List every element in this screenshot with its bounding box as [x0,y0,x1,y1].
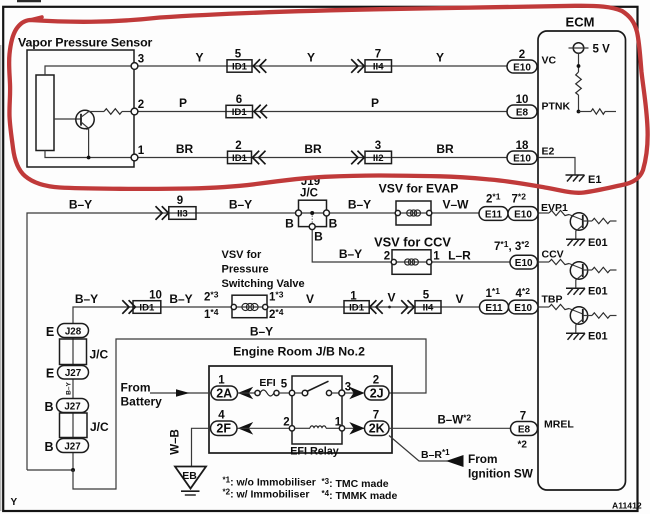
svg-text:Y: Y [307,51,315,65]
relay pin 5 circle [289,390,294,395]
resistor CCV base [549,259,569,264]
wire row 6 TBP feed [73,307,539,324]
junction block J/C upper [60,339,109,365]
svg-text:Vapor Pressure Sensor: Vapor Pressure Sensor [18,36,153,50]
svg-text:J28: J28 [65,326,82,337]
svg-text:Ignition SW: Ignition SW [468,467,534,481]
svg-text:II4: II4 [423,303,434,314]
wire 2K to MREL [389,427,511,429]
svg-text:*3: TMC made: *3: TMC made [322,477,389,490]
sensor pin 1 [131,154,138,161]
connector ID1 pin 1 [344,291,383,314]
wire sensor top to pin 3 [45,66,134,75]
connector E10 pin 4*2 [509,286,539,314]
solenoid VSV for pressure switching valve [231,295,268,318]
arrow connector 2K [349,422,364,435]
svg-text:EFI Relay: EFI Relay [290,446,339,458]
connector 2K pin 7 [365,410,390,436]
svg-text:E11: E11 [485,303,503,314]
junction block J19 J/C [296,176,330,230]
svg-text:E2: E2 [542,146,555,158]
connector E11 pin 2*1 [479,192,508,221]
svg-text:2*1: 2*1 [486,192,501,206]
arrow connector 2A [238,387,253,400]
svg-text:B–R*1: B–R*1 [421,448,450,461]
wire sensor bottom to row 3 [45,151,134,158]
wire bottom left link [27,469,73,471]
svg-text:Pressure: Pressure [222,263,269,275]
red marker start hook [30,17,42,20]
resistor ECM horizontal [591,109,605,114]
solenoid VSV for EVAP [395,201,432,225]
EFI relay box [292,376,342,444]
wire 2F to ground [192,428,211,466]
svg-text:1: 1 [218,375,225,387]
svg-text:J/C: J/C [90,420,109,434]
svg-text:V–W: V–W [442,198,469,212]
svg-text:7: 7 [520,411,526,423]
svg-text:B–Y: B–Y [339,247,362,261]
svg-text:A11412: A11412 [612,501,642,511]
sensor pin 2 [131,108,138,115]
wire to fuse [238,392,256,394]
resistor EVP1 collector [592,218,610,223]
resistor EVP1 base [549,210,569,215]
svg-text:2: 2 [384,251,390,263]
svg-text:TBP: TBP [542,294,563,306]
svg-text:E8: E8 [518,424,531,435]
svg-text:B–Y: B–Y [75,292,98,306]
svg-text:1: 1 [433,251,440,263]
svg-text:J/C: J/C [90,348,109,362]
svg-text:E11: E11 [485,209,503,220]
node junction dot [71,468,75,472]
svg-text:5: 5 [235,49,242,61]
svg-text:VC: VC [542,55,557,67]
svg-text:5 V: 5 V [593,44,611,56]
svg-text:B: B [314,230,323,244]
svg-text:EVP1: EVP1 [541,202,568,214]
connector II2 pin 3 [351,140,391,165]
ground EB triangle [175,467,206,496]
connector E10 pin 18 (E2) [507,140,537,165]
connector J28 (E) [46,324,89,340]
svg-text:VSV for CCV: VSV for CCV [374,235,451,250]
fuse EFI [255,377,279,396]
connector 2A pin 1 [211,375,238,401]
resistor TBP collector [592,313,610,318]
relay pin 2 circle [289,426,294,431]
svg-text:9: 9 [177,195,183,207]
Engine Room J/B box [209,366,392,453]
svg-text:E10: E10 [513,62,531,73]
svg-text:BR: BR [436,142,454,156]
CCV driver: wire pin to resistor [539,261,550,263]
svg-text:Y: Y [436,51,444,65]
connector II4 pin 5 [401,290,441,314]
connector ID1 pin 6 [226,94,267,118]
svg-text:E10: E10 [514,303,532,314]
svg-text:ID1: ID1 [349,303,365,314]
svg-text:B: B [44,400,53,414]
svg-text:From: From [121,381,151,395]
svg-text:1*3: 1*3 [269,290,284,304]
wire fuse to relay pin 5 [279,392,292,394]
svg-text:3: 3 [375,140,381,152]
connector 2J pin 2 [365,375,390,401]
arrow battery feed [176,389,190,397]
svg-text:B–Y: B–Y [169,292,192,306]
svg-text:BR: BR [176,142,194,156]
svg-text:1: 1 [138,145,145,157]
svg-text:From: From [468,452,498,466]
arrow from ignition [446,455,464,467]
svg-text:V: V [387,291,395,305]
ground E01 (TBP) [566,333,585,340]
svg-text:2J: 2J [370,386,384,400]
wire battery feed [150,392,211,394]
connector ID1 pin 5 [227,49,266,73]
connector J27 (B) [44,399,88,415]
transistor Q1 (sensor) [76,110,94,130]
svg-text:II3: II3 [177,209,188,220]
svg-text:5: 5 [281,379,288,391]
svg-text:E: E [46,325,54,339]
svg-text:PTNK: PTNK [542,101,571,113]
svg-text:W–B: W–B [170,429,182,455]
wire to relay pin 2 [238,427,293,429]
relay switch contacts [295,381,339,396]
red marker loop [9,6,648,193]
wire resistor to PTNK node [578,95,580,112]
connector ID1 pin 10 [122,290,162,314]
vapor pressure sensor box [27,50,134,167]
svg-text:B: B [329,217,338,231]
resistor CCV collector [592,267,610,272]
svg-text:J/C: J/C [300,188,318,200]
relay pin 1 circle [339,426,344,431]
svg-text:J27: J27 [64,441,81,452]
svg-text:E10: E10 [514,209,532,220]
svg-text:P: P [179,96,187,110]
node PTNK junction [577,110,581,114]
junction dot emitter [87,156,91,160]
transistor CCV [570,262,592,289]
sensor pin 3 [131,63,138,70]
svg-text:EB: EB [182,470,197,482]
svg-text:*4: TMMK made: *4: TMMK made [322,489,398,502]
svg-text:Battery: Battery [121,395,163,409]
svg-text:B–W*2: B–W*2 [438,413,472,427]
svg-text:V: V [306,292,314,306]
wire PTNK node to resistor [579,111,592,113]
svg-text:1: 1 [350,291,357,303]
svg-text:VSV for EVAP: VSV for EVAP [379,182,459,196]
svg-text:ID1: ID1 [232,62,248,73]
svg-text:4: 4 [218,410,225,422]
wire row 1 VC (Y) [135,65,539,67]
svg-text:18: 18 [516,140,529,152]
connector E8 pin 10 (PTNK) [507,94,537,118]
svg-text:B–Y: B–Y [69,198,92,212]
svg-text:B–Y: B–Y [348,198,371,212]
svg-text:*2: w/ Immobiliser: *2: w/ Immobiliser [223,488,310,501]
svg-text:5: 5 [423,290,430,302]
junction block J/C lower [60,413,110,438]
svg-text:7*1, 3*2: 7*1, 3*2 [494,239,530,253]
svg-text:MREL: MREL [544,419,574,431]
arrow connector 2F [238,422,253,435]
svg-text:E10: E10 [513,153,531,164]
svg-text:J27: J27 [65,368,82,379]
svg-text:1*4: 1*4 [204,307,219,321]
wire row 3 E2 (BR) [135,157,539,159]
wire row 2 PTNK (P) [135,111,539,113]
wire 5V to VC node [578,53,580,72]
svg-text:Y: Y [11,497,18,508]
svg-text:ID1: ID1 [139,303,155,314]
svg-text:E01: E01 [588,237,608,249]
wire row 4 EVP1 feed [27,213,539,470]
connector 2F pin 4 [211,410,238,436]
arrow connector 2J [349,387,364,400]
transistor TBP [570,307,592,334]
svg-text:E10: E10 [515,258,533,269]
svg-text:*2: *2 [518,440,528,451]
wire E2 to ground [539,158,576,176]
svg-text:4*2: 4*2 [516,286,531,300]
wire transistor base [54,118,81,120]
svg-text:7: 7 [373,410,379,422]
svg-text:B–Y: B–Y [229,198,252,212]
relay pin 3 circle [339,390,345,396]
node dot mid wire [388,306,391,309]
resistor TBP base [549,304,569,309]
svg-text:ID1: ID1 [232,153,248,164]
connector E11 pin 1*1 [480,286,509,314]
wire B-R branch [389,436,463,462]
TBP driver: wire pin to resistor [539,306,550,308]
svg-text:7: 7 [375,49,381,61]
svg-text:E01: E01 [588,286,608,298]
svg-text:B–Y: B–Y [250,325,273,339]
connector E10 pin 7*2 [508,192,538,221]
svg-text:2: 2 [373,375,379,387]
svg-text:BR: BR [304,142,322,156]
svg-text:1: 1 [335,417,342,429]
transistor EVP1 [570,213,592,240]
svg-text:3: 3 [138,54,144,66]
connector ID1 pin 2 [228,140,266,165]
svg-text:2A: 2A [216,386,232,400]
svg-text:6: 6 [236,94,242,106]
svg-text:V: V [455,292,463,306]
svg-text:2: 2 [235,140,241,152]
svg-text:VSV for: VSV for [222,249,262,261]
connector J27 (E) [46,366,89,381]
svg-text:2*3: 2*3 [204,290,219,304]
connector II4 pin 7 [351,49,391,73]
node VC junction [577,64,581,68]
svg-text:L–R: L–R [448,249,471,263]
svg-text:*1: w/o Immobiliser: *1: w/o Immobiliser [223,476,316,489]
wire row 5 CCV feed [312,230,538,262]
svg-text:10: 10 [516,94,529,106]
connector E10 (CCV) [510,255,538,269]
ECM box [538,31,626,490]
wire relay to arrow [345,392,355,394]
5V supply symbol [569,43,611,56]
wire B-Y return path [73,339,426,489]
ground E01 (EVP1) [566,239,585,246]
resistor (sensor) [104,109,122,115]
solenoid VSV for CCV [391,250,432,274]
svg-text:E01: E01 [588,331,608,343]
wire junction chain vertical [72,324,74,470]
svg-text:7*2: 7*2 [512,192,527,206]
connector II3 pin 9 [156,195,197,220]
wire stub after resistor [605,111,616,113]
svg-text:2F: 2F [216,422,231,436]
resistor ECM vertical [576,72,582,95]
wire emitter down [88,128,90,157]
svg-text:B: B [44,440,53,454]
svg-text:1*1: 1*1 [486,286,501,300]
connector E10 pin 2 (VC) [507,49,537,73]
svg-text:J27: J27 [64,401,81,412]
svg-text:2: 2 [519,49,525,61]
svg-text:10: 10 [149,290,162,302]
svg-text:II4: II4 [373,62,384,73]
svg-text:B: B [285,217,294,231]
svg-text:2: 2 [138,99,144,111]
svg-text:P: P [371,96,379,110]
svg-text:ECM: ECM [566,15,595,30]
connector E8 pin 7 (MREL) [511,411,538,451]
svg-text:E8: E8 [516,107,529,118]
svg-text:E1: E1 [588,174,601,186]
svg-text:Y: Y [195,51,203,65]
svg-text:E: E [46,367,54,381]
svg-text:ID1: ID1 [232,107,248,118]
svg-text:B–Y: B–Y [66,382,73,395]
relay coil [295,426,340,428]
svg-text:Switching Valve: Switching Valve [222,278,305,290]
svg-text:EFI: EFI [259,377,275,389]
connector J27 (B) lower [44,439,88,455]
svg-text:2*4: 2*4 [269,307,284,321]
svg-text:2: 2 [283,417,289,429]
ground E1 [566,175,585,182]
svg-text:Engine Room J/B No.2: Engine Room J/B No.2 [233,345,365,359]
sensor element rectangle [36,75,54,151]
svg-text:2K: 2K [369,422,385,436]
wire collector to resistor [89,111,104,113]
EVP1 driver: wire pin to resistor [539,212,550,214]
wire relay pin1 to arrow [345,427,365,429]
svg-text:II2: II2 [373,153,384,164]
ground E01 (CCV) [566,288,585,295]
